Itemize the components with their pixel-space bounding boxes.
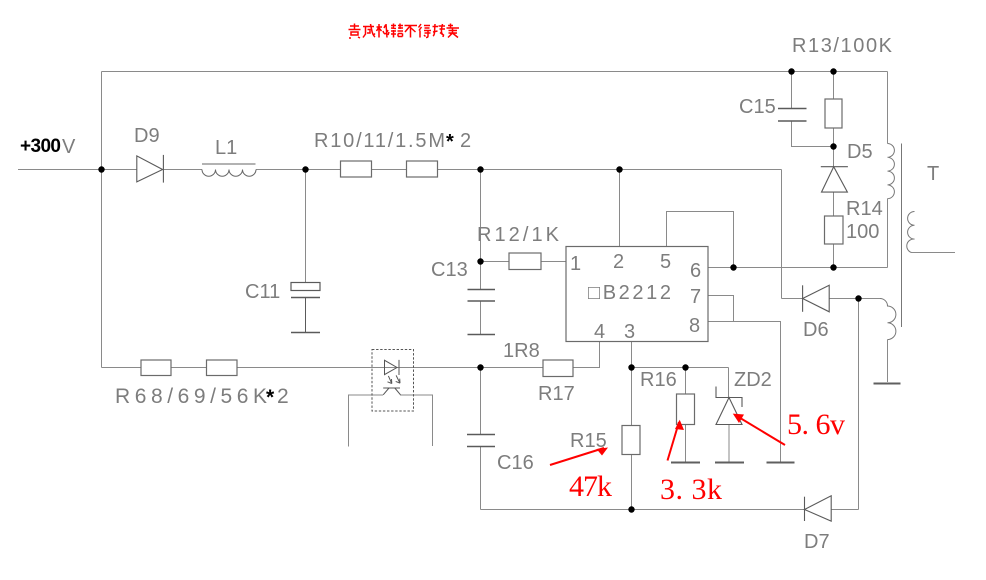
svg-text:6: 6 <box>690 260 701 282</box>
svg-text:C16: C16 <box>497 452 534 474</box>
svg-text:R12/1K: R12/1K <box>477 224 560 246</box>
svg-text:1R8: 1R8 <box>503 340 540 362</box>
svg-text:2: 2 <box>613 251 624 273</box>
svg-text:100: 100 <box>846 221 879 243</box>
svg-text:1: 1 <box>570 253 581 275</box>
svg-text:R13/100K: R13/100K <box>792 35 893 57</box>
svg-text:47k: 47k <box>569 470 612 503</box>
svg-text:7: 7 <box>690 286 701 308</box>
svg-text:ZD2: ZD2 <box>734 369 772 391</box>
svg-text:V: V <box>62 136 76 158</box>
svg-text:R10/11/1.5M: R10/11/1.5M <box>314 130 445 152</box>
svg-text:+300: +300 <box>20 136 61 157</box>
svg-text:*: * <box>266 386 275 409</box>
svg-text:3. 3k: 3. 3k <box>660 473 722 506</box>
svg-text:5: 5 <box>660 251 671 273</box>
svg-text:L1: L1 <box>215 137 237 159</box>
svg-text:C11: C11 <box>245 281 280 303</box>
svg-text:8: 8 <box>689 315 700 337</box>
svg-text:5. 6v: 5. 6v <box>787 408 845 441</box>
svg-text:D6: D6 <box>803 319 829 341</box>
svg-text:*: * <box>446 131 454 153</box>
svg-text:R68/69/56K: R68/69/56K <box>115 385 267 408</box>
svg-text:D9: D9 <box>134 125 160 147</box>
svg-text:R17: R17 <box>538 383 575 405</box>
svg-text:2: 2 <box>277 385 289 408</box>
svg-text:C13: C13 <box>431 259 468 281</box>
svg-text:D7: D7 <box>804 531 830 553</box>
svg-text:4: 4 <box>594 321 605 343</box>
svg-text:D5: D5 <box>847 141 873 163</box>
svg-text:R16: R16 <box>640 369 677 391</box>
svg-text:T: T <box>927 163 939 185</box>
svg-text:R14: R14 <box>846 198 883 220</box>
svg-text:C15: C15 <box>739 96 776 118</box>
svg-text:2: 2 <box>460 130 471 152</box>
svg-text:3: 3 <box>624 321 635 343</box>
